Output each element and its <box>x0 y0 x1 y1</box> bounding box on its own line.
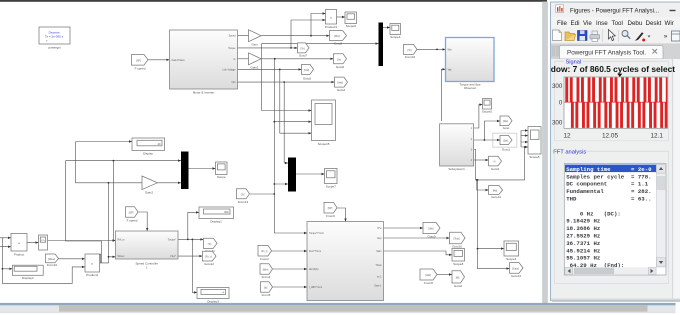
svg-text:N: N <box>494 161 496 164</box>
wire: Mux1 in1 long from left <box>66 159 181 262</box>
svg-text:Product1: Product1 <box>86 273 98 277</box>
svg-text:powergui: powergui <box>48 46 61 50</box>
listbox horizontal scrollbar <box>565 267 657 275</box>
svg-text:Fundamental = 282.: Fundamental = 282. <box>566 188 651 195</box>
goto Goto6 <box>334 54 347 69</box>
toolbar icon open folder <box>565 35 576 41</box>
svg-text:From13: From13 <box>238 200 249 204</box>
FFT listbox <box>564 164 666 276</box>
svg-text:Torque*: Torque* <box>168 239 176 242</box>
wire: Mux1 output to Scope <box>189 167 216 169</box>
svg-text:DC component = 1.1: DC component = 1.1 <box>566 181 649 188</box>
wire: vertical feed to Observer in2 <box>441 68 445 121</box>
svg-text:×: × <box>91 262 93 266</box>
tab bar <box>551 44 680 59</box>
white slivers inside bottom bars <box>574 102 665 128</box>
svg-text:[Tr]: [Tr] <box>241 193 245 196</box>
simulink scrollbar lower light line <box>0 312 676 314</box>
wire: Scope5 input stubs <box>521 129 528 180</box>
svg-text:Ts = 2e-005 s.: Ts = 2e-005 s. <box>45 34 64 38</box>
svg-text:Gate-1: Gate-1 <box>374 285 382 288</box>
wire: Product out through rate block to Speed Controller in1 <box>27 239 116 244</box>
listbox vertical scrollbar <box>656 164 665 267</box>
svg-text:Product3: Product3 <box>325 25 337 29</box>
scope Scope <box>216 162 228 179</box>
plot marker triangle <box>617 74 622 77</box>
mux Mux2 <box>379 23 384 67</box>
svg-text:Goto3: Goto3 <box>491 167 500 171</box>
svg-text:Torque: Torque <box>228 47 236 50</box>
midline red trace <box>564 101 667 104</box>
subsystem Speed Controller <box>116 231 179 269</box>
wire: Current control out2 to Goto10 <box>384 237 450 239</box>
svg-text:Speed: Speed <box>229 35 237 38</box>
svg-text:Samples per cycle = 778.: Samples per cycle = 778. <box>566 173 651 180</box>
svg-text:Scope3: Scope3 <box>506 257 517 261</box>
Signal group legend <box>555 59 669 141</box>
From tag From5 <box>261 282 273 297</box>
svg-text:F speed: F speed <box>135 67 146 71</box>
svg-text:9.18429 Hz: 9.18429 Hz <box>566 218 600 225</box>
gain Gain2 <box>142 176 158 194</box>
goto Goto8 <box>330 31 347 46</box>
window bottom edge <box>551 299 680 301</box>
goto Goto9 <box>423 222 440 238</box>
scope Scope5 (multi input) <box>528 127 541 160</box>
svg-text:300: 300 <box>552 120 563 127</box>
scope Scope4 <box>390 24 401 40</box>
svg-text:Scope6: Scope6 <box>346 24 357 28</box>
svg-text:File: File <box>557 20 568 27</box>
svg-text:Goto14: Goto14 <box>491 195 501 199</box>
toolbar icon dock grid <box>672 31 680 41</box>
svg-text:F speed: F speed <box>127 218 138 222</box>
svg-text:Subsystem1: Subsystem1 <box>448 167 465 171</box>
goto Goto3 <box>489 156 502 171</box>
minimize dash <box>670 10 676 11</box>
wire: From13 to Current control in1 and Mux3 in2 <box>250 121 307 234</box>
svg-text:36.7371 Hz: 36.7371 Hz <box>566 240 600 247</box>
svg-text:[Is]: [Is] <box>264 287 268 290</box>
svg-text:[Gate]: [Gate] <box>512 267 519 270</box>
svg-text:From3: From3 <box>262 275 271 279</box>
svg-text:×: × <box>330 16 332 20</box>
svg-text:45.9214 Hz: 45.9214 Hz <box>566 247 600 254</box>
signal plot area <box>564 74 668 129</box>
svg-text:Motor & Inverter: Motor & Inverter <box>193 91 215 95</box>
svg-text:Gate Pulses: Gate Pulses <box>172 59 186 62</box>
wire: Mux3 output to Scope7 <box>296 173 325 175</box>
wire: Speed Controller out1 to Goto11 with branches to Display1 and Display3 <box>178 211 203 293</box>
figures window frame <box>551 2 680 301</box>
svg-text:Scope2: Scope2 <box>482 110 493 114</box>
wire: F speed tag down into Speed Controller top <box>138 212 148 231</box>
svg-text:Display1: Display1 <box>210 220 222 224</box>
panel background <box>551 59 680 300</box>
product Product3 <box>325 10 337 30</box>
wire: Gain2 output to Mux1 in2 <box>158 182 182 184</box>
svg-text:Goto8: Goto8 <box>334 42 343 46</box>
svg-text:[SP]: [SP] <box>129 212 134 215</box>
active tab <box>560 46 664 60</box>
scope Scope15 (3 input) <box>312 100 336 146</box>
svg-text:300: 300 <box>552 83 563 90</box>
wire: Subsystem1 out3 long run right with branch to Goto14 <box>474 150 525 192</box>
wire: Current control out3 to Scope8 <box>384 251 453 256</box>
svg-text:THD = 63..: THD = 63.. <box>566 196 651 203</box>
svg-text:Scope8: Scope8 <box>453 262 464 266</box>
wire: Speed Controller out2 to Goto12 <box>178 255 202 257</box>
goto Goto1 (framed) <box>493 133 517 152</box>
svg-text:Scope7: Scope7 <box>326 184 337 188</box>
wire: long vertical to Scope3 and Display2 <box>477 179 510 270</box>
toolbar icon save <box>578 31 588 41</box>
menu bar <box>551 17 680 28</box>
wire: Subsystem1 out2 to Goto and Goto1 <box>474 120 500 141</box>
svg-text:Goto13: Goto13 <box>511 274 521 278</box>
wire: From8 to Goto2 <box>437 273 452 275</box>
product Product <box>11 234 27 257</box>
svg-text:Display4: Display4 <box>22 276 34 280</box>
svg-text:Flux*: Flux* <box>171 255 177 258</box>
svg-text:300: 300 <box>224 210 229 214</box>
svg-text:[Wm]: [Wm] <box>263 269 269 272</box>
svg-text:[SP]: [SP] <box>136 59 141 62</box>
svg-text:Display: Display <box>143 151 153 155</box>
toolbar icon new file <box>553 30 562 41</box>
From tag From2 <box>258 245 272 260</box>
toolbar icon cursor <box>609 30 616 41</box>
From tag From13 <box>237 189 250 204</box>
svg-text:Inse: Inse <box>596 20 608 27</box>
svg-text:[Vab]: [Vab] <box>425 274 431 277</box>
svg-text:[We]: [We] <box>429 228 434 231</box>
svg-text:From8: From8 <box>424 281 433 285</box>
scope Scope3 <box>504 241 519 261</box>
svg-text:[Fx_r]: [Fx_r] <box>261 250 267 253</box>
simulink horizontal scrollbar blue top edge <box>0 303 676 305</box>
svg-text:[Fx_r]: [Fx_r] <box>205 256 211 259</box>
svg-text:Wm: Wm <box>448 48 452 51</box>
svg-text:Wir: Wir <box>665 20 674 27</box>
powergui block <box>39 27 70 50</box>
rate block <box>39 235 48 250</box>
title bar icon <box>556 5 564 13</box>
svg-text:[Wm]: [Wm] <box>334 35 340 38</box>
panel right inner border <box>672 59 674 300</box>
goto Goto11 <box>203 238 217 253</box>
svg-text:[We]: [We] <box>503 120 508 123</box>
svg-text:Torque*T=Lim: Torque*T=Lim <box>309 232 324 235</box>
svg-text:[Vdc]: [Vdc] <box>304 69 310 72</box>
wire: Gain output to Goto8 with branch up to Product3 in1 <box>261 12 330 37</box>
svg-text:Goto7: Goto7 <box>299 54 308 58</box>
svg-text:Goto10: Goto10 <box>452 245 462 249</box>
goto Goto5 <box>302 64 314 80</box>
svg-text:I_ABC*=Lim: I_ABC*=Lim <box>309 286 322 289</box>
gain Gain <box>249 30 262 47</box>
svg-text:Ref_m: Ref_m <box>118 239 125 242</box>
wire: Speed output to Gain input <box>238 35 249 37</box>
mux Mux1 <box>181 152 189 190</box>
wire: Vph output to Goto4 with branch down to Mux3 in1 <box>238 81 335 164</box>
svg-text:[SP]: [SP] <box>328 207 333 210</box>
svg-text:Scope4: Scope4 <box>390 35 401 39</box>
svg-text:Goto2: Goto2 <box>454 284 463 288</box>
svg-text:27.5529 Hz: 27.5529 Hz <box>566 233 600 240</box>
svg-text:Goto: Goto <box>503 126 510 130</box>
svg-text:55.1057 Hz: 55.1057 Hz <box>566 255 600 262</box>
svg-text:Product: Product <box>14 252 25 256</box>
From tag From9 <box>324 202 337 218</box>
goto Goto12 <box>202 251 216 266</box>
toolbar icon brush <box>635 32 644 40</box>
svg-text:dow: 7 of 860.5 cycles of sele: dow: 7 of 860.5 cycles of select <box>551 64 675 74</box>
simulink vertical scrollbar <box>543 2 548 303</box>
wire: From3 to Current control in3 <box>273 268 308 270</box>
goto Goto2 <box>452 271 465 288</box>
red PWM bars bottom half <box>571 102 667 128</box>
svg-text:[Wme]: [Wme] <box>48 258 55 261</box>
svg-text:Display3: Display3 <box>207 299 219 303</box>
subsystem Observer (selected, blue border) <box>446 38 495 91</box>
subsystem Current control <box>307 222 384 307</box>
wire: bus corner down to Mux2 and Scope15 in1 <box>262 42 379 111</box>
display Display1 <box>199 207 234 224</box>
svg-text:[Wr]: [Wr] <box>493 189 498 192</box>
svg-text:Scope: Scope <box>217 175 226 179</box>
wire: Product3 output to Scope6 <box>337 16 346 18</box>
svg-text:Scope15: Scope15 <box>318 142 330 146</box>
goto Goto10 <box>450 232 466 248</box>
display Display <box>132 138 165 155</box>
svg-text:0: 0 <box>559 100 563 107</box>
svg-text:[W]: [W] <box>456 276 460 279</box>
From tag F speed (input) <box>132 55 149 71</box>
scope Scope7 <box>325 169 338 189</box>
toolbar icon print <box>590 35 600 40</box>
svg-text:Goto9: Goto9 <box>427 235 436 239</box>
goto Goto <box>500 116 512 130</box>
svg-text:Scope5: Scope5 <box>529 155 540 159</box>
svg-text:Goto12: Goto12 <box>204 262 214 266</box>
scope Scope2 <box>482 99 493 114</box>
svg-text:From5: From5 <box>262 293 271 297</box>
wire: Gain1 output to Goto6 with branch down to Scope15 in2 <box>261 58 334 194</box>
wire: From2 to Current control in2 <box>272 250 308 252</box>
svg-text:Tool: Tool <box>612 20 623 27</box>
y axis labels <box>552 83 563 126</box>
red PWM bars top half <box>565 77 667 102</box>
gain Gain1 <box>249 53 262 70</box>
svg-text:[Vab]: [Vab] <box>337 82 343 85</box>
wire: From16 to Observer in1 <box>417 48 446 50</box>
svg-text:Wmec: Wmec <box>118 255 126 258</box>
svg-text:[Is]: [Is] <box>337 58 341 61</box>
toolbar <box>551 28 680 44</box>
wire: Mux2 output to Scope4 <box>383 26 390 28</box>
FFT analysis group legend <box>553 149 668 283</box>
toolbar dropdown tick <box>648 36 651 38</box>
From tag From16 <box>404 44 418 59</box>
subsystem Motor & Inverter <box>170 30 238 95</box>
wire: stub into Product1 area <box>95 254 101 263</box>
svg-text:»: » <box>664 33 668 40</box>
svg-text:From10: From10 <box>47 263 58 267</box>
selected row highlight <box>565 165 656 173</box>
From tag From8 <box>420 269 437 285</box>
svg-text:12.1: 12.1 <box>651 133 664 140</box>
svg-text:[Te]: [Te] <box>301 47 305 50</box>
svg-text:[Teta]: [Teta] <box>454 238 460 241</box>
wire: Product inputs from left edge <box>0 237 11 248</box>
scope Scope8 <box>452 249 465 266</box>
svg-text:Deskt: Deskt <box>646 20 662 27</box>
simulink horizontal scrollbar thumb <box>59 305 648 312</box>
svg-text:Gain: Gain <box>251 43 258 47</box>
From tag From10 <box>46 254 59 267</box>
wire: Link Voltage output to Goto5 with branch down to Scope15 in3 <box>238 68 312 134</box>
svg-text:Figures - Powergui FFT Analysi: Figures - Powergui FFT Analysi... <box>570 8 659 15</box>
svg-text:abc(3ph): abc(3ph) <box>309 268 319 271</box>
wire: Subsystem1 out4 to Goto3 <box>474 159 489 161</box>
wire: left loop vertical to Display and Gain2 <box>76 140 142 183</box>
svg-text:Vab: Vab <box>448 68 453 71</box>
mux Mux3 <box>288 158 296 192</box>
svg-text:[Tr]: [Tr] <box>208 243 212 246</box>
svg-text:Gain2: Gain2 <box>145 190 153 194</box>
goto Goto7 <box>298 43 310 58</box>
subsystem Subsystem1 <box>440 124 474 171</box>
wire: From10 to Product1 in1 <box>59 258 86 260</box>
wire: Product1 output to Speed Controller in2 <box>100 160 116 263</box>
goto Goto14 <box>489 186 503 199</box>
figures window drop shadow <box>552 4 680 302</box>
simulink toolbar bottom dark line <box>0 0 547 2</box>
wire: Subsystem1 out1 to Scope2 <box>474 103 483 128</box>
x axis labels <box>564 133 664 140</box>
wire: Current control out1 to Goto9 <box>384 227 424 229</box>
svg-text:×: × <box>18 241 20 245</box>
svg-text:Sampling time = 2e-0: Sampling time = 2e-0 <box>566 166 652 173</box>
product Product1 <box>85 254 100 277</box>
toolbar separator <box>601 30 603 43</box>
svg-text:Flux*T=Lim: Flux*T=Lim <box>309 250 321 253</box>
svg-text:Debu: Debu <box>628 20 643 27</box>
svg-text:Goto4: Goto4 <box>337 88 346 92</box>
svg-text:ec-1: ec-1 <box>377 276 382 279</box>
svg-text:Gain1: Gain1 <box>250 66 258 70</box>
svg-text:Vie: Vie <box>583 20 592 27</box>
svg-text:From2: From2 <box>260 257 269 261</box>
display Display4 <box>12 265 43 280</box>
svg-text:[Te]: [Te] <box>408 49 412 52</box>
scope Scope6 <box>345 12 357 28</box>
svg-text:Goto1: Goto1 <box>502 148 511 152</box>
wire: Is output to Gain1 <box>238 58 249 60</box>
display Display3 <box>197 288 229 304</box>
wire: From5 to Current control in4 <box>273 286 308 288</box>
svg-text:Theta: Theta <box>375 264 382 267</box>
svg-text:From9: From9 <box>326 214 335 218</box>
figures window title bar <box>551 3 680 18</box>
svg-text:12: 12 <box>564 133 572 140</box>
svg-text:12.05: 12.05 <box>602 133 618 140</box>
svg-text:Goto6: Goto6 <box>336 65 345 69</box>
svg-text:18.3686 Hz: 18.3686 Hz <box>566 225 600 232</box>
wire: bottom feedback loop to Display4 and Product1 in2 <box>2 238 86 284</box>
goto Goto4 <box>335 77 348 92</box>
svg-text:Link Voltage: Link Voltage <box>222 68 236 71</box>
wire: From F-speed to Motor & Inverter Gate Pulses <box>148 59 170 61</box>
svg-text:Goto5: Goto5 <box>303 76 312 80</box>
svg-text:From16: From16 <box>405 55 416 59</box>
svg-text:Powergui FFT Analysis Tool.: Powergui FFT Analysis Tool. <box>567 49 646 56</box>
goto Goto13 <box>510 263 524 279</box>
svg-text:N*a: N*a <box>378 227 383 230</box>
svg-text:Vph: Vph <box>231 81 236 84</box>
svg-text:Valm: Valm <box>376 250 381 253</box>
simulink horizontal scrollbar track <box>0 303 676 313</box>
toolbar icon magnifier <box>622 31 628 37</box>
svg-text:Observer: Observer <box>464 86 476 90</box>
From tag F speed2 <box>126 207 139 223</box>
svg-text:[Qtr]: [Qtr] <box>503 139 508 142</box>
svg-text:Exp: Exp <box>377 237 382 240</box>
wire: From9 down into Current control top <box>337 208 347 222</box>
wire: Torque output to Goto7 with branch up to Product3 in2 <box>238 19 326 49</box>
svg-text:Edi: Edi <box>571 20 580 27</box>
From tag From3 <box>260 264 273 279</box>
white slivers inside top bars <box>568 77 659 102</box>
svg-text:0 Hz (DC):: 0 Hz (DC): <box>566 210 621 217</box>
svg-text:FFT analysis: FFT analysis <box>553 149 586 155</box>
toolbar separator2 <box>617 30 619 43</box>
FFT list text <box>566 166 652 269</box>
